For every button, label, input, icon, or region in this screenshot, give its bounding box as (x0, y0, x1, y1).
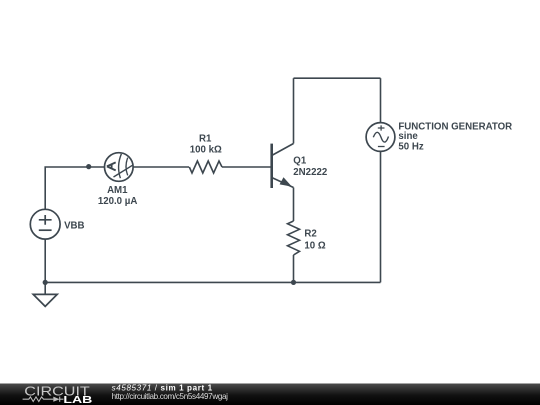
svg-text:10 Ω: 10 Ω (304, 241, 325, 252)
svg-text:http://circuitlab.com/c5n5s449: http://circuitlab.com/c5n5s4497wgaj (112, 392, 229, 401)
function generator V1 (366, 123, 395, 152)
svg-text:VBB: VBB (64, 220, 84, 231)
wire: bottom horizontal (45, 281, 380, 283)
wire: R2 to bottom (293, 255, 295, 282)
wire: VBB top to ammeter left (45, 167, 104, 209)
wire: function generator bottom (380, 152, 382, 283)
svg-text:R2: R2 (304, 229, 316, 240)
svg-text:R1: R1 (199, 134, 212, 145)
ammeter AM1 (105, 153, 134, 182)
svg-text:100 kΩ: 100 kΩ (190, 145, 222, 156)
svg-text:LAB: LAB (63, 394, 93, 405)
wire: VBB bottom (44, 239, 46, 282)
wire: function generator top (380, 78, 382, 122)
node dot A (left of ammeter) (86, 164, 91, 169)
ground stub (44, 282, 46, 294)
wire: ammeter right to R1 (133, 166, 189, 168)
transistor Q1 (272, 144, 294, 189)
ground symbol (33, 294, 57, 306)
svg-text:120.0 µA: 120.0 µA (98, 196, 138, 207)
wire: Q1 collector up (293, 78, 295, 143)
svg-text:Q1: Q1 (293, 155, 307, 166)
voltage source VBB (30, 209, 60, 239)
resistor R2 (288, 221, 300, 255)
logo zigzag wire and diode (23, 397, 64, 402)
label A inside ammeter (107, 162, 116, 170)
node dot B (ground junction) (43, 280, 48, 285)
wire: R1 to Q1 base (222, 166, 271, 168)
svg-text:AM1: AM1 (107, 185, 128, 196)
wire: top horizontal (294, 77, 381, 79)
node dot C (R2 bottom junction) (291, 280, 296, 285)
svg-text:50 Hz: 50 Hz (398, 142, 423, 153)
wire: Q1 emitter to R2 (293, 188, 295, 222)
resistor R1 (189, 161, 222, 173)
footer bar (0, 383, 540, 405)
svg-text:sine: sine (398, 131, 418, 142)
svg-text:2N2222: 2N2222 (293, 167, 327, 178)
